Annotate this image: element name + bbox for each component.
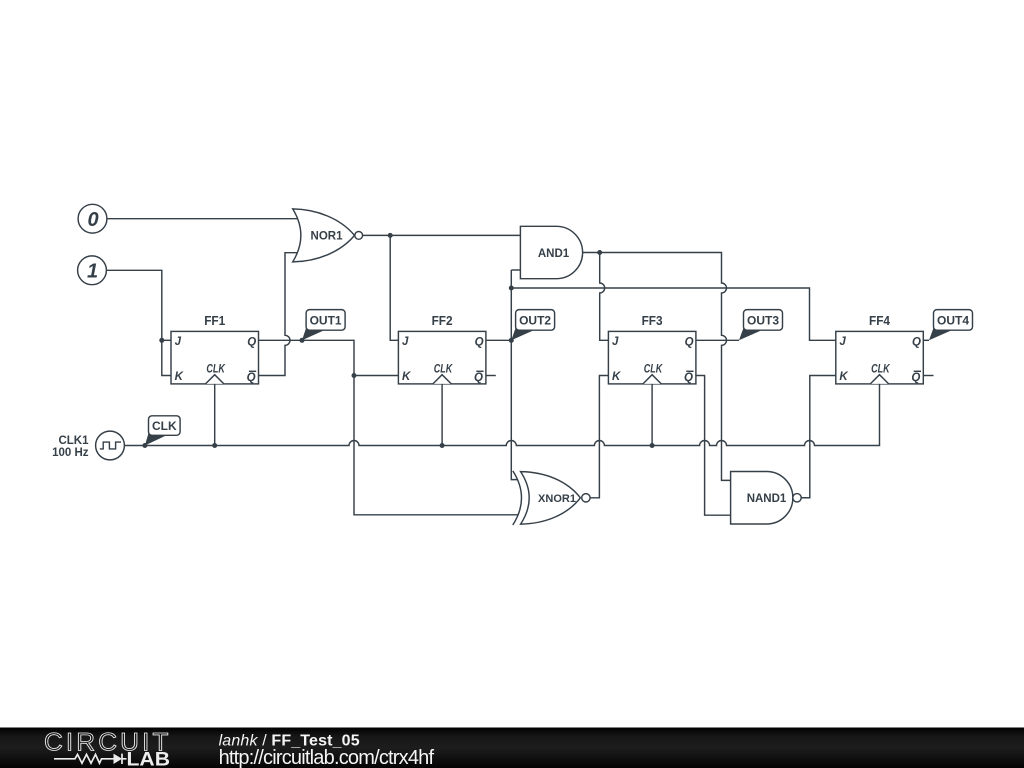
svg-text:CLK: CLK <box>152 419 177 433</box>
gate XNOR1 <box>513 471 590 525</box>
FF3 body <box>608 331 696 384</box>
svg-text:Q: Q <box>912 336 921 348</box>
gate NAND1 <box>731 472 802 525</box>
flip-flop FF1 <box>171 313 259 384</box>
flag CLK <box>145 416 180 446</box>
wire FF3 Qbar down to NAND1 bottom input <box>696 376 731 516</box>
wire branch AND1 bottom input <box>511 269 520 271</box>
XNOR1 output bubble <box>582 494 590 502</box>
svg-text:NAND1: NAND1 <box>747 493 787 505</box>
flag OUT4 <box>929 310 973 341</box>
svg-text:100 Hz: 100 Hz <box>52 447 89 459</box>
node junction FF2 K branch <box>352 373 357 378</box>
svg-text:FF3: FF3 <box>642 313 663 328</box>
node junction OUT1 attach <box>300 338 305 343</box>
svg-text:K: K <box>612 371 621 383</box>
node junction CLK flag attach <box>142 443 147 448</box>
CircuitLab logo: diode symbol <box>114 754 123 764</box>
svg-text:K: K <box>839 371 848 383</box>
svg-text:FF2: FF2 <box>432 313 453 328</box>
svg-text:J: J <box>175 336 182 348</box>
svg-text:J: J <box>612 336 619 348</box>
wire FF1 Q to OUT1, FF2 K and XNOR1 bottom input <box>259 340 519 515</box>
svg-text:http://circuitlab.com/ctrx4hf: http://circuitlab.com/ctrx4hf <box>219 747 435 768</box>
node junction FF3 CLK <box>650 443 655 448</box>
wire FF1 CLK stub <box>214 384 216 446</box>
svg-text:OUT2: OUT2 <box>519 314 551 328</box>
svg-text:Q: Q <box>475 336 484 348</box>
node junction FF1 CLK <box>212 443 217 448</box>
NAND1 output bubble <box>793 494 801 502</box>
wire FF2 Q to OUT2 junction <box>486 339 511 341</box>
flip-flop FF2 <box>398 313 486 384</box>
XNOR1 input double-line arc <box>513 471 522 525</box>
wire AND1 output right and down to NAND1 top input (hops at 288 and 340) <box>583 253 731 481</box>
wire NOR1 output to AND1 top input <box>363 234 521 236</box>
svg-text:AND1: AND1 <box>538 248 570 260</box>
FF1 body <box>171 331 259 384</box>
gate NOR1 <box>293 209 363 262</box>
wire FF2 CLK stub <box>441 384 443 446</box>
CLK1 body circle <box>96 431 125 460</box>
svg-text:CLK: CLK <box>434 364 453 376</box>
FF2 clock edge-trigger marker <box>433 375 451 384</box>
svg-text:Q: Q <box>474 372 483 384</box>
svg-text:FF4: FF4 <box>869 313 891 328</box>
wire branch NOR1 output down to FF2 J <box>390 235 398 340</box>
flip-flop FF4 <box>836 313 924 384</box>
clock source CLK1 100 Hz <box>52 431 124 460</box>
wire net0: source 0 to NOR1 top input <box>107 218 298 220</box>
svg-text:NOR1: NOR1 <box>311 231 344 243</box>
FF1 clock edge-trigger marker <box>206 375 224 384</box>
svg-text:Q: Q <box>911 372 920 384</box>
node junction at FF1 J <box>159 338 164 343</box>
wire clock distribution line with hops, up to FF4 CLK <box>124 384 879 446</box>
FF3 clock edge-trigger marker <box>643 375 661 384</box>
svg-text:FF1: FF1 <box>204 313 225 328</box>
svg-text:CLK: CLK <box>206 364 225 376</box>
flag OUT2 <box>511 310 554 341</box>
svg-text:CLK: CLK <box>644 364 663 376</box>
wire FF4 Qbar stub <box>923 375 933 377</box>
svg-text:Q: Q <box>684 372 693 384</box>
FF4 body <box>836 331 924 384</box>
input source 1 <box>78 256 107 285</box>
svg-text:K: K <box>175 371 184 383</box>
node junction AND1 output <box>597 250 602 255</box>
svg-text:1: 1 <box>87 260 98 282</box>
wire FF1 Qbar up to NOR1 lower input (hops over Q wire) <box>259 253 298 376</box>
svg-text:J: J <box>402 336 409 348</box>
FF2 body <box>398 331 486 384</box>
node junction NOR1 output <box>388 233 393 238</box>
svg-text:CLK1: CLK1 <box>58 435 89 447</box>
wire OUT2 junction up to AND1 bottom input, down to XNOR1 top input <box>511 270 517 480</box>
input source 0 <box>78 204 107 233</box>
wire XNOR1 output up to FF3 K <box>590 376 608 498</box>
wire NAND1 output up to FF4 K <box>801 376 836 498</box>
CircuitLab logo: resistor symbol <box>54 754 114 763</box>
svg-text:OUT3: OUT3 <box>747 314 779 328</box>
wire net1 branch to FF1 J <box>162 339 171 341</box>
svg-text:OUT1: OUT1 <box>310 314 342 328</box>
svg-text:K: K <box>402 371 411 383</box>
wire net1: source 1 to FF1 J and K <box>106 270 171 375</box>
wire FF3 Q to OUT3 <box>696 339 739 341</box>
svg-text:CLK: CLK <box>871 364 890 376</box>
svg-text:J: J <box>839 336 846 348</box>
svg-text:XNOR1: XNOR1 <box>538 493 576 505</box>
gate AND1 <box>520 226 582 278</box>
FF4 clock edge-trigger marker <box>870 375 888 384</box>
wire FF4 Q to OUT4 <box>923 339 929 341</box>
flip-flop FF3 <box>608 313 696 384</box>
NOR1 output bubble <box>355 232 363 240</box>
svg-text:OUT4: OUT4 <box>937 314 969 328</box>
svg-text:LAB: LAB <box>127 749 171 768</box>
node junction OUT2 attach <box>509 338 514 343</box>
wire FF2 Qbar stub <box>486 375 496 377</box>
wire branch AND1 output down to FF3 J (hops at 288) <box>600 253 609 341</box>
svg-text:0: 0 <box>87 209 98 231</box>
svg-text:Q: Q <box>247 372 256 384</box>
wire FF3 CLK stub <box>651 384 653 446</box>
svg-text:Q: Q <box>685 336 694 348</box>
flag OUT3 <box>739 310 783 341</box>
node junction at y288 <box>509 286 514 291</box>
wire branch to FF2 K <box>354 375 398 377</box>
wire net FF2.Q across to FF4 J <box>511 288 836 340</box>
flag OUT1 <box>302 310 345 341</box>
node junction FF2 CLK <box>440 443 445 448</box>
svg-text:Q: Q <box>247 336 256 348</box>
CLK1 square-wave symbol <box>100 442 121 449</box>
